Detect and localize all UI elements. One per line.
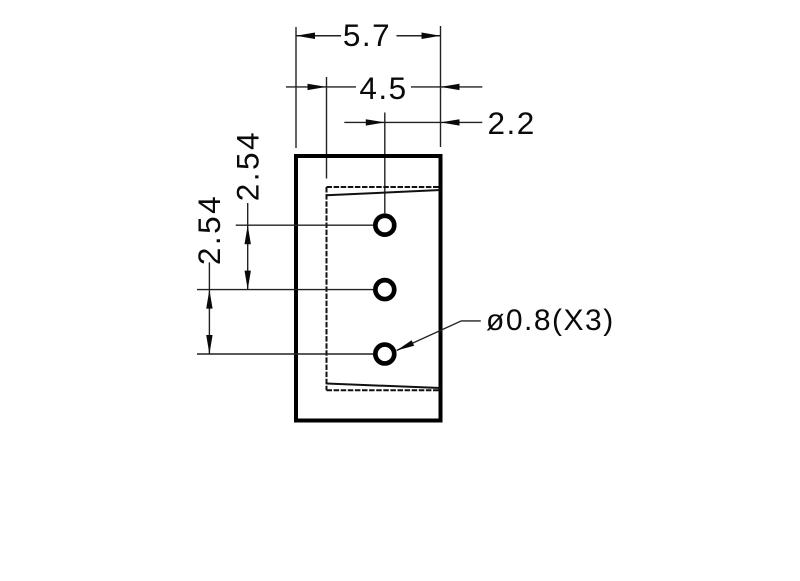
dimension 5.7 arrow right <box>422 33 441 39</box>
dimension 4.5 outside arrow right <box>441 86 483 88</box>
extension line inner-left (for 4.5) <box>326 77 328 179</box>
dimension 2.2 outside arrow left <box>344 121 385 123</box>
leader line for hole diameter <box>397 321 481 351</box>
extension line pin column center (for 2.2) <box>384 113 386 214</box>
svg-text:ø0.8(X3): ø0.8(X3) <box>486 304 615 337</box>
center line pin hole 1 <box>236 224 374 226</box>
extension line left (for 5.7) <box>295 27 297 148</box>
center line pin hole 3 <box>197 353 373 355</box>
dimension 2.54 (pins 2-3) arrows <box>206 290 212 309</box>
dimension 2.54 (pins 1-2) stub <box>247 203 249 225</box>
dimension 4.5 line <box>327 86 357 88</box>
pin hole 3 <box>375 345 394 364</box>
pin hole 1 <box>375 216 394 235</box>
svg-text:2.54: 2.54 <box>191 194 227 265</box>
leader arrowhead <box>397 340 415 350</box>
svg-text:4.5: 4.5 <box>359 70 407 106</box>
dimension 2.54 (pins 2-3) line <box>208 290 210 354</box>
connector body outline <box>296 156 441 421</box>
svg-text:2.2: 2.2 <box>488 105 536 141</box>
cavity hidden edge left (dashed) <box>326 187 328 390</box>
cavity bottom edge (slanted solid) <box>327 384 441 389</box>
dimension 5.7 arrow left <box>296 33 315 39</box>
svg-text:2.54: 2.54 <box>230 130 266 201</box>
dimension 2.54 (pins 1-2) line <box>247 225 249 289</box>
dimension 5.7 line <box>296 35 341 37</box>
svg-text:5.7: 5.7 <box>343 17 391 53</box>
extension line right (for 5.7 / 4.5 / 2.2) <box>440 26 442 147</box>
dimension 2.2 outside arrow right <box>441 121 483 123</box>
dimension 2.54 (pins 1-2) arrows <box>245 225 251 244</box>
dimension 2.2 line <box>385 121 441 123</box>
dimension 4.5 outside arrow left <box>286 86 327 88</box>
cavity top edge (slanted solid) <box>327 190 441 195</box>
dimension 2.54 (pins 2-3) stub <box>208 262 210 289</box>
center line pin hole 2 <box>197 289 373 291</box>
pin hole 2 <box>375 280 394 299</box>
cavity hidden edge top (dashed) <box>327 186 441 188</box>
cavity hidden edge bottom (dashed) <box>327 389 441 391</box>
